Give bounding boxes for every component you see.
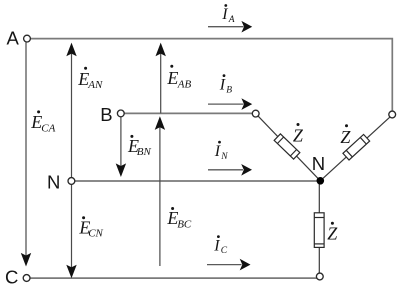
svg-text:B: B — [226, 86, 232, 96]
node N junction dot — [317, 177, 325, 185]
terminal A — [24, 35, 31, 42]
svg-text:BN: BN — [137, 146, 152, 158]
arrow E_AB — [156, 43, 166, 114]
arrow I_N — [208, 164, 252, 176]
impedance Z (B phase, diagonal) — [274, 134, 300, 159]
label E_AB — [166, 65, 191, 91]
impedance Z (A phase, diagonal) — [343, 134, 370, 160]
svg-text:I: I — [213, 237, 220, 254]
svg-text:AN: AN — [87, 79, 103, 91]
label E_BN — [127, 135, 152, 158]
label E_BC — [166, 207, 192, 230]
svg-text:N: N — [47, 171, 60, 192]
svg-text:C: C — [221, 246, 228, 256]
svg-text:N: N — [220, 152, 228, 162]
terminal N — [68, 178, 75, 185]
arrow E_BC — [155, 116, 165, 266]
label Z (B phase) — [293, 123, 304, 145]
svg-text:Z: Z — [327, 223, 338, 243]
wire diagonal B-phase to node N — [258, 116, 320, 181]
svg-text:AB: AB — [177, 78, 192, 90]
arrow E_CA — [21, 43, 31, 267]
label I_N — [214, 141, 229, 162]
label E_CN — [78, 216, 103, 239]
arrow E_AN — [66, 43, 76, 180]
svg-text:Z: Z — [340, 127, 351, 147]
arrow I_A — [208, 21, 252, 33]
wire line C — [30, 277, 317, 279]
svg-text:B: B — [100, 104, 112, 125]
svg-text:I: I — [214, 143, 221, 160]
terminal B right — [252, 110, 259, 117]
terminal C right — [316, 273, 323, 280]
svg-text:A: A — [228, 15, 235, 25]
arrow I_B — [208, 98, 252, 110]
svg-text:BC: BC — [177, 218, 192, 230]
label E_AN — [77, 67, 103, 91]
svg-text:I: I — [219, 76, 226, 93]
wire line A with right edge drop — [30, 39, 392, 112]
svg-text:N: N — [312, 153, 325, 174]
label I_B — [219, 74, 232, 95]
impedance Z (C phase, vertical) — [314, 213, 324, 248]
wire diagonal A-phase to node N — [320, 117, 390, 181]
svg-text:CA: CA — [41, 122, 55, 134]
arrow E_CN — [66, 181, 76, 278]
svg-text:Z: Z — [293, 125, 304, 145]
svg-text:E: E — [166, 68, 178, 88]
label E_CA — [30, 110, 55, 134]
label Z (C phase) — [327, 222, 338, 244]
svg-text:CN: CN — [88, 228, 103, 240]
terminal C — [23, 275, 30, 282]
wire node N down to load — [318, 181, 320, 273]
terminal B left — [117, 110, 124, 117]
wire line N — [75, 180, 318, 182]
wire line B — [124, 112, 252, 114]
svg-text:I: I — [221, 6, 228, 23]
terminal A right — [389, 111, 396, 118]
label I_A — [221, 4, 235, 25]
arrow E_BN — [116, 117, 126, 177]
arrow I_C — [207, 259, 251, 271]
svg-text:C: C — [5, 267, 18, 288]
svg-text:A: A — [7, 27, 20, 48]
label I_C — [213, 235, 227, 256]
label Z (A phase) — [340, 124, 351, 147]
